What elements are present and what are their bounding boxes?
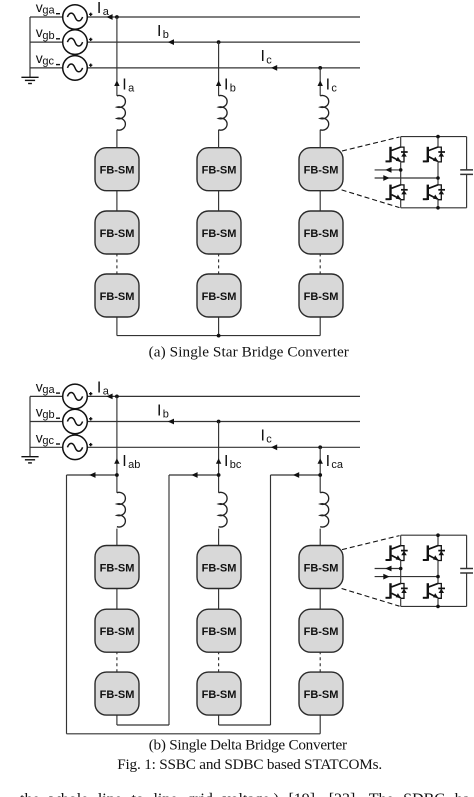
svg-text:b: b	[163, 409, 169, 421]
svg-text:a: a	[103, 386, 110, 398]
svg-text:b: b	[163, 29, 169, 41]
svg-text:gb: gb	[42, 409, 54, 421]
svg-text:I: I	[224, 76, 228, 93]
svg-text:bc: bc	[230, 459, 242, 471]
svg-text:c: c	[331, 83, 337, 95]
svg-text:b: b	[230, 83, 236, 95]
svg-text:I: I	[122, 76, 126, 93]
svg-text:(a) Single Star Bridge Convert: (a) Single Star Bridge Converter	[149, 344, 349, 361]
svg-text:I: I	[261, 428, 265, 445]
svg-text:I: I	[261, 48, 265, 65]
svg-text:ab: ab	[128, 459, 140, 471]
svg-text:I: I	[326, 76, 330, 93]
svg-text:gc: gc	[42, 56, 54, 68]
svg-text:I: I	[122, 453, 126, 470]
svg-text:I: I	[326, 453, 330, 470]
svg-text:I: I	[157, 402, 161, 419]
svg-text:ga: ga	[42, 5, 55, 17]
svg-text:gc: gc	[42, 435, 54, 447]
svg-text:c: c	[266, 434, 272, 446]
svg-text:(b) Single Delta Bridge Conver: (b) Single Delta Bridge Converter	[149, 736, 347, 753]
svg-text:I: I	[97, 0, 101, 17]
svg-text:ga: ga	[42, 384, 55, 396]
svg-text:gb: gb	[42, 30, 54, 42]
svg-text:I: I	[157, 23, 161, 40]
svg-text:Fig. 1: SSBC and SDBC based ST: Fig. 1: SSBC and SDBC based STATCOMs.	[117, 756, 382, 773]
svg-text:I: I	[224, 453, 228, 470]
svg-text:the whole line to line grid vo: the whole line to line grid voltage.) [1…	[20, 791, 470, 797]
svg-text:c: c	[266, 54, 272, 66]
svg-text:ca: ca	[331, 459, 344, 471]
svg-text:a: a	[103, 6, 110, 18]
svg-text:I: I	[97, 379, 101, 396]
svg-text:a: a	[128, 83, 135, 95]
